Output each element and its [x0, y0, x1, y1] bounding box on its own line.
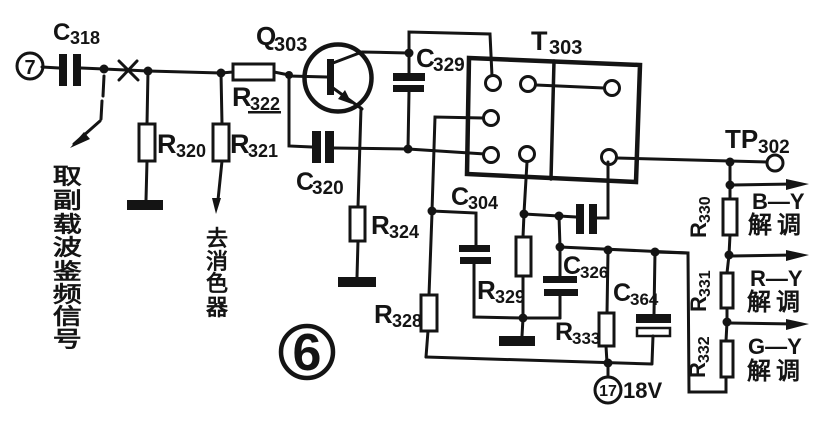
- svg-text:取: 取: [53, 165, 82, 189]
- svg-text:信: 信: [53, 304, 82, 329]
- svg-text:6: 6: [293, 324, 322, 382]
- wire emitter down to R324: [358, 108, 361, 207]
- wire R324 to ground: [357, 241, 358, 277]
- T303 pin2: [484, 111, 499, 126]
- svg-text:C: C: [563, 252, 581, 280]
- label TP302: [725, 124, 790, 158]
- T303 pin5: [520, 147, 535, 162]
- node P junction (TP302): [726, 158, 735, 167]
- wire T303 pin7 to TP302: [617, 158, 768, 162]
- capacitor C318: [59, 54, 81, 86]
- svg-text:波: 波: [53, 235, 82, 260]
- wire base node down to C320: [289, 78, 312, 147]
- svg-text:R: R: [555, 318, 573, 346]
- svg-text:B—Y: B—Y: [752, 189, 805, 214]
- collector lead: [333, 52, 408, 63]
- svg-text:R: R: [371, 210, 390, 240]
- svg-text:解调: 解调: [748, 211, 806, 239]
- capacitor C320: [312, 131, 334, 163]
- wire node C to R322: [221, 72, 233, 73]
- capacitor (T303 secondary coupling): [576, 204, 597, 234]
- svg-text:解调: 解调: [747, 357, 805, 385]
- wire R330 down to node R: [729, 235, 730, 255]
- wire T303 pin2 to node F: [432, 117, 483, 211]
- svg-text:318: 318: [70, 28, 100, 48]
- capacitor C304: [459, 245, 491, 264]
- wire terminal7 to C318: [42, 67, 59, 68]
- wire R321 down with arrow to color killer: [218, 161, 222, 200]
- svg-text:R: R: [157, 129, 177, 159]
- wire node F down to R328: [429, 213, 432, 295]
- capacitor C329: [393, 73, 425, 92]
- TP302 test point circle: [767, 155, 783, 171]
- transistor Q303: [289, 45, 408, 112]
- wire C329 down to node D: [408, 92, 409, 149]
- terminal 7 (input pin): [17, 53, 43, 79]
- svg-text:C: C: [53, 19, 70, 46]
- svg-text:7: 7: [24, 57, 35, 79]
- label R333: [555, 318, 600, 348]
- svg-text:去: 去: [206, 226, 228, 251]
- svg-text:302: 302: [758, 137, 790, 158]
- node S junction (G-Y tap): [723, 318, 732, 327]
- svg-text:17: 17: [599, 383, 617, 400]
- page marker 6: [281, 326, 333, 378]
- resistor R333: [599, 313, 614, 346]
- svg-text:R: R: [686, 222, 711, 238]
- label R324: [371, 210, 419, 242]
- svg-text:器: 器: [205, 295, 229, 320]
- svg-text:R—Y: R—Y: [750, 266, 803, 291]
- label C304: [451, 183, 498, 213]
- svg-text:331: 331: [697, 270, 714, 297]
- svg-text:328: 328: [392, 311, 422, 331]
- transformer T303 box: [467, 58, 640, 182]
- T303 internal wire pin4 to pin6: [536, 85, 604, 88]
- wire node R down to R331: [727, 255, 729, 273]
- svg-text:320: 320: [312, 178, 344, 199]
- wire node K down to C326: [559, 247, 562, 276]
- wire node I down to node K: [559, 216, 560, 247]
- label C329: [416, 43, 465, 76]
- wire node H down to R329: [523, 214, 524, 237]
- note: take subcarrier reference signal (vertical Chinese): [52, 165, 82, 352]
- wire node B to node C: [148, 71, 221, 73]
- label T303: [531, 26, 582, 59]
- 18V rail wire: [426, 357, 652, 364]
- wire R333 down to rail node N: [606, 346, 607, 363]
- svg-text:解调: 解调: [747, 288, 805, 316]
- resistor R329: [516, 237, 531, 276]
- resistor R330: [723, 199, 737, 235]
- T303 internal divider: [551, 61, 554, 179]
- svg-text:321: 321: [248, 141, 278, 161]
- label C320: [296, 168, 344, 199]
- svg-text:324: 324: [389, 222, 419, 242]
- node N junction (18V feed): [604, 359, 613, 368]
- resistor R324: [350, 207, 365, 241]
- label R330 (rotated): [686, 196, 714, 238]
- svg-text:载: 载: [53, 212, 82, 237]
- wire node P down to node Q: [729, 162, 732, 185]
- T303 pin1: [486, 76, 501, 91]
- svg-text:号: 号: [53, 328, 82, 352]
- node B junction: [144, 67, 153, 76]
- svg-text:频: 频: [53, 282, 82, 307]
- node A junction: [100, 65, 109, 74]
- wire cap to T303 pin7: [597, 162, 608, 218]
- resistor R320: [139, 124, 155, 161]
- wire node I to coupling cap: [559, 216, 576, 217]
- node K junction (C326 top / 18V line): [556, 243, 565, 252]
- resistor R322: [233, 64, 274, 80]
- wire node C down to R321: [221, 73, 222, 124]
- node M junction (C364 top): [651, 248, 660, 257]
- wire node E down to C329: [408, 53, 411, 73]
- node I junction (cap / C326 branch): [555, 212, 564, 221]
- wire R328 down to 18V rail: [426, 331, 428, 357]
- svg-text:R: R: [232, 82, 252, 112]
- T303 pin4: [521, 77, 536, 92]
- svg-text:329: 329: [495, 287, 525, 307]
- label C364: [613, 279, 659, 309]
- svg-text:G—Y: G—Y: [748, 334, 802, 359]
- wire T303 pin5 down to node H: [524, 162, 527, 213]
- wire node N to terminal 17: [607, 365, 610, 377]
- node C junction: [217, 69, 226, 78]
- svg-text:TP: TP: [725, 124, 758, 154]
- label R329: [477, 275, 525, 307]
- B-Y output arrow: [732, 184, 795, 185]
- node F junction: [428, 207, 437, 216]
- wire R332 bottom loop to 18V line: [655, 252, 726, 392]
- node E junction (collector / C329 top): [405, 49, 414, 58]
- node L junction (R333 top): [604, 246, 613, 255]
- wire node J to C326 bottom: [523, 317, 560, 320]
- svg-text:333: 333: [572, 329, 600, 348]
- label R331 (rotated): [686, 270, 714, 312]
- wire node Q down to R330: [729, 185, 732, 199]
- T303 pin7: [602, 150, 617, 165]
- 18V distribution wire node K to loop corner: [560, 247, 688, 253]
- label C318: [53, 19, 100, 48]
- wire C318 to node A: [81, 68, 104, 69]
- supply terminal 17: [595, 377, 621, 403]
- wire node L down to R333: [607, 252, 608, 313]
- wire R329 down to node J: [522, 276, 525, 318]
- svg-text:R: R: [374, 299, 393, 329]
- svg-text:332: 332: [696, 336, 713, 363]
- label Q303: [256, 21, 307, 56]
- node J junction (ground node): [519, 314, 528, 323]
- capacitor C326: [543, 276, 578, 296]
- wire node J to ground: [522, 318, 523, 336]
- label R321: [230, 129, 278, 161]
- node R junction (R-Y tap): [725, 251, 734, 260]
- wire node E up and top wire to T303 pin1: [409, 32, 492, 76]
- wire C304 down to ground wire: [474, 264, 523, 318]
- svg-text:C: C: [613, 279, 631, 307]
- leader arrow from node A to Chinese note: [70, 76, 104, 148]
- ground (R324): [338, 277, 376, 287]
- wire C364 down to rail: [652, 336, 653, 363]
- svg-text:329: 329: [433, 55, 465, 76]
- wire C326 down to node J wire: [559, 296, 562, 318]
- note: to color killer (vertical Chinese): [205, 226, 229, 320]
- wire node D to T303 pin3: [408, 149, 485, 154]
- svg-text:303: 303: [549, 37, 582, 59]
- resistor R331: [721, 273, 733, 308]
- svg-text:320: 320: [176, 141, 206, 161]
- svg-text:T: T: [531, 26, 548, 56]
- svg-text:鉴: 鉴: [52, 259, 82, 284]
- emitter lead with arrow: [333, 88, 362, 109]
- base node junction: [285, 71, 293, 79]
- svg-text:副: 副: [53, 188, 82, 213]
- svg-text:18V: 18V: [623, 378, 662, 403]
- R-Y output arrow: [731, 255, 795, 256]
- wire node M down to C364: [654, 252, 655, 314]
- wire node F to C304 corner: [432, 211, 476, 245]
- wire node S down to R332: [726, 322, 727, 341]
- resistor R332: [721, 341, 733, 377]
- wire node A to node B (through X mark): [104, 69, 148, 71]
- capacitor C364 (electrolytic): [636, 314, 671, 323]
- ground (R320): [127, 200, 163, 210]
- wire R322 to base node: [274, 72, 289, 75]
- svg-text:326: 326: [580, 263, 608, 282]
- svg-text:R: R: [230, 129, 250, 159]
- resistor R328: [421, 295, 437, 331]
- label R332 (rotated): [685, 336, 713, 378]
- svg-text:C: C: [451, 183, 469, 211]
- svg-text:304: 304: [468, 193, 498, 213]
- label R320: [157, 129, 206, 161]
- X break mark: [119, 61, 138, 80]
- G-Y output arrow: [729, 323, 795, 324]
- label C326: [563, 252, 608, 282]
- node Q junction (B-Y tap): [726, 181, 735, 190]
- wire R331 down to node S: [726, 308, 729, 322]
- T303 pin3: [484, 148, 499, 163]
- svg-text:R: R: [477, 275, 496, 305]
- ground (R329): [499, 336, 535, 346]
- resistor R321: [213, 124, 229, 161]
- svg-text:330: 330: [697, 196, 714, 223]
- T303 pin6: [605, 81, 620, 96]
- label R328: [374, 299, 422, 331]
- wire node B down to R320: [147, 71, 148, 124]
- wire node H to node I: [524, 214, 559, 216]
- node D junction (C329 bottom / mid wire): [404, 145, 413, 154]
- wire C320 to node D: [334, 148, 408, 149]
- node H junction (R329 top): [520, 210, 529, 219]
- label R322: [232, 82, 281, 114]
- wire R320 to ground: [146, 161, 147, 200]
- svg-text:303: 303: [274, 34, 307, 56]
- svg-text:色: 色: [206, 271, 228, 296]
